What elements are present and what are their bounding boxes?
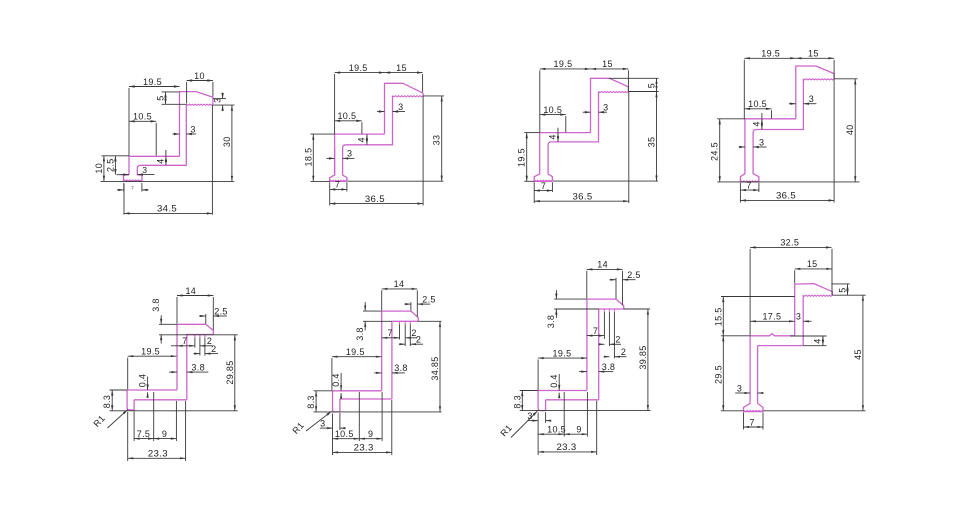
dim 19.5 (P1) <box>129 86 180 88</box>
ext line right full (P2) <box>422 96 424 206</box>
svg-text:3: 3 <box>320 418 325 428</box>
baseline ext bottom (P8) <box>764 410 866 412</box>
svg-text:15: 15 <box>807 259 818 269</box>
svg-text:32.5: 32.5 <box>780 238 799 248</box>
ext lines top dims (P3) <box>539 70 541 132</box>
profile P6 arm <box>333 390 382 392</box>
profile P5 hat teeth <box>194 335 196 338</box>
baseline ext right (P3) <box>553 180 658 182</box>
dim 32.5 (P8) <box>750 246 831 248</box>
ext line 32.5 left (P8) <box>749 249 751 336</box>
profile P1 foot serration <box>124 180 141 181</box>
dim 8.3 (P5) <box>111 390 113 411</box>
dim 3.8 top-left (P6) <box>364 302 366 311</box>
dim 3.8 mid (P5) <box>169 371 177 373</box>
svg-text:15: 15 <box>808 49 819 59</box>
profile P6 hat top <box>382 311 419 399</box>
ext lines dim 5 (P1) <box>162 91 180 93</box>
profile P2 foot serration <box>330 180 346 181</box>
ext lines 23.3 (P7) <box>537 413 539 456</box>
dim 0.4 (P6) <box>340 373 342 391</box>
baseline ext lip bottom (P6) <box>314 411 442 413</box>
leader R1 (P7) <box>511 411 538 438</box>
dim 15.5 (P8) <box>722 297 724 336</box>
ext lines 14 (P5) <box>176 297 178 324</box>
dim 2 second (P7) <box>604 356 609 358</box>
ext lines 10.5/9 (P6) <box>358 392 360 441</box>
profile P5 arm <box>127 389 177 391</box>
dim 19.5 (P7) <box>538 357 587 359</box>
dim 7 (P2) <box>330 188 347 190</box>
baseline ext right (P2) <box>348 180 444 182</box>
svg-text:36.5: 36.5 <box>776 191 796 202</box>
ext lines dim 10 (P1) <box>186 82 188 104</box>
dim 3.8 top-left (P5) <box>160 315 162 324</box>
ext lines 5 (P3) <box>609 77 659 79</box>
ext line hat-bottom right (P6) <box>418 320 441 322</box>
dim 8.3 (P6) <box>315 391 317 412</box>
dim 3 lip (P7) <box>528 420 538 422</box>
dim 19.5 (P4) <box>744 57 796 59</box>
ext lines 19.5 left (P3) <box>524 132 539 134</box>
profile P3 foot serration <box>535 180 552 181</box>
profile P3 flange serrated underside <box>599 92 629 93</box>
svg-text:9: 9 <box>576 425 581 435</box>
dim 29.85 (P5) <box>234 335 236 411</box>
svg-text:3.8: 3.8 <box>191 362 205 372</box>
ext line hat-top left (P5) <box>159 323 177 325</box>
svg-text:45: 45 <box>853 349 863 360</box>
dim 19.5 (P6) <box>332 356 382 358</box>
dim 4 (P4) <box>761 113 763 119</box>
dim 3 lip (P6) <box>320 427 333 429</box>
svg-text:3.8: 3.8 <box>151 298 161 312</box>
ext lines 3.8 (P7) <box>554 298 587 300</box>
ext lines 14 (P7) <box>586 271 588 299</box>
ext line 40 top (P4) <box>834 78 857 80</box>
dim 3 top-right (P1) <box>222 93 224 99</box>
dim 30 (P1) <box>231 105 233 181</box>
svg-text:33: 33 <box>432 135 442 146</box>
profile P4 top flange <box>796 66 834 119</box>
dim 7 teeth (P7) <box>587 335 605 337</box>
dim 19.5 (P2) <box>335 72 385 74</box>
dim 10 (P1) <box>187 80 213 82</box>
profile P6 hat teeth <box>399 321 401 324</box>
ext line right full (P3) <box>628 92 630 204</box>
svg-text:4: 4 <box>357 137 367 142</box>
svg-text:3: 3 <box>759 137 764 147</box>
dim 4 (P2) <box>366 134 368 145</box>
dim 19.5 top (P3) <box>540 68 591 70</box>
svg-text:7: 7 <box>131 186 134 191</box>
svg-text:36.5: 36.5 <box>572 192 592 203</box>
leader R1 (P6) <box>306 411 332 431</box>
svg-text:4: 4 <box>813 338 823 343</box>
dim 3 upper (P4) <box>789 103 796 105</box>
ext lines 7.5/9 (P5) <box>133 412 135 442</box>
svg-text:24.5: 24.5 <box>710 142 720 161</box>
svg-text:3: 3 <box>603 103 608 113</box>
profile P8 upper webs <box>794 284 796 336</box>
dim 4 (P1) <box>165 150 167 156</box>
ext line 8.3 top (P5) <box>110 389 128 391</box>
svg-text:19.5: 19.5 <box>517 148 527 167</box>
dim 7 teeth (P6) <box>382 337 400 339</box>
svg-text:10: 10 <box>194 71 205 81</box>
profile P3 lower web / arm top <box>540 133 591 146</box>
teeth ext lines (P5) <box>194 338 196 348</box>
svg-text:0.4: 0.4 <box>549 374 559 388</box>
profile P4 foot <box>740 133 759 182</box>
dim 10.5 (P1) <box>129 120 156 122</box>
profile P1 foot outline <box>124 175 142 182</box>
dim 34.5 (P1) <box>124 212 212 214</box>
dim 10.5 and 9 (P7) <box>538 433 564 435</box>
profile P1 right web and arm underside <box>137 104 186 181</box>
svg-text:5: 5 <box>647 83 657 88</box>
profile P3 right web / arm underside <box>548 92 598 182</box>
dim 14 (P5) <box>177 295 213 297</box>
svg-text:3: 3 <box>527 411 532 421</box>
svg-text:5: 5 <box>838 287 848 292</box>
profile P8 arm bottom <box>758 345 804 347</box>
svg-text:3: 3 <box>796 312 801 322</box>
ext lines 23.3 (P6) <box>332 414 334 456</box>
dim 33 (P2) <box>441 96 443 181</box>
dim 10 left (P1) <box>103 156 105 182</box>
dim 5 (P8) <box>847 284 849 295</box>
svg-text:7: 7 <box>182 336 187 346</box>
dim 3 lower (P8) <box>735 392 750 394</box>
dim 3.8 top-left (P7) <box>555 290 557 299</box>
svg-text:15: 15 <box>396 63 407 73</box>
svg-text:10.5: 10.5 <box>335 429 354 439</box>
svg-text:19.5: 19.5 <box>349 63 368 73</box>
ext lines 4 (P8) <box>790 335 827 337</box>
dim 5 right (P3) <box>656 78 658 91</box>
dim 7 teeth (P5) <box>177 345 195 347</box>
profile P1 top flange <box>180 92 213 157</box>
dim 2.5 (P6) <box>404 303 411 305</box>
svg-text:2.5: 2.5 <box>627 270 641 280</box>
svg-text:23.3: 23.3 <box>148 449 168 460</box>
svg-text:23.3: 23.3 <box>354 443 374 454</box>
svg-text:3: 3 <box>347 149 352 159</box>
baseline ext (P4) <box>717 181 859 183</box>
svg-text:19.5: 19.5 <box>761 49 780 59</box>
ext lines 29.5 (P8) <box>721 335 750 337</box>
svg-text:3.8: 3.8 <box>602 362 616 372</box>
svg-text:2: 2 <box>615 335 620 345</box>
dim 3 upper (P8) <box>803 320 811 322</box>
ext lines dim 3 top-right (P1) <box>213 98 226 100</box>
svg-text:14: 14 <box>597 260 608 270</box>
dim 2 first (P5) <box>200 345 213 347</box>
svg-text:8.3: 8.3 <box>512 395 522 409</box>
svg-text:29.5: 29.5 <box>713 365 723 384</box>
ext line hat-bottom level (P5) <box>159 334 238 336</box>
profile P8 arm top with bump <box>750 334 795 336</box>
dim 18.5 (P2) <box>312 134 314 181</box>
profile P4 foot serration <box>741 181 758 182</box>
svg-text:10.5: 10.5 <box>547 425 566 435</box>
dim 3 lower (P2) <box>327 157 335 159</box>
ext lines 10.5/9 (P7) <box>563 392 565 437</box>
profile P1 flange serrated underside <box>186 104 213 105</box>
svg-text:18.5: 18.5 <box>303 148 313 167</box>
svg-text:10.5: 10.5 <box>748 99 767 109</box>
dim 15 (P4) <box>796 57 834 59</box>
svg-text:7: 7 <box>541 181 546 191</box>
dim 2 second (P5) <box>194 353 200 355</box>
svg-text:3.8: 3.8 <box>546 315 556 329</box>
dim 19.5 (P5) <box>128 355 177 357</box>
svg-text:19.5: 19.5 <box>141 347 160 357</box>
profile P2 arm top left join <box>334 148 336 175</box>
svg-text:34.85: 34.85 <box>430 356 440 380</box>
dim 7.5 and 9 (P5) <box>134 438 154 440</box>
dim 15 (P2) <box>385 72 423 74</box>
dim 23.3 (P6) <box>333 451 392 453</box>
svg-text:14: 14 <box>185 286 196 296</box>
dim 0.4 (P7) <box>558 374 560 391</box>
dim 3 mid (P3) <box>583 111 591 113</box>
profile P2 foot <box>330 148 347 181</box>
dim 2 second (P6) <box>399 343 405 345</box>
ext line left 19.5 (P1) <box>128 88 130 156</box>
dim 45 (P8) <box>862 295 864 411</box>
profile P2 lower web / arm top <box>335 134 385 148</box>
dim 10.5 and 9 (P6) <box>333 438 360 440</box>
ext lines 3.8 (P6) <box>363 310 382 312</box>
dim 15 (P8) <box>795 268 832 270</box>
dim 29.5 (P8) <box>722 336 724 411</box>
ext lines 23.3 (P5) <box>127 412 129 461</box>
svg-text:3: 3 <box>190 124 195 134</box>
profile P7 arm <box>538 390 587 392</box>
svg-text:10.5: 10.5 <box>543 105 562 115</box>
svg-text:3: 3 <box>142 165 147 175</box>
ext line hat-bottom right (P7) <box>624 308 650 310</box>
ext line 10.5 right (P1) <box>155 123 157 156</box>
svg-text:7: 7 <box>335 180 340 190</box>
dim 3 at foot (P1) <box>121 174 130 176</box>
dim 19.5 left (P3) <box>526 133 528 182</box>
ext line 19.5 left (P6) <box>331 358 333 390</box>
svg-text:8.3: 8.3 <box>306 395 316 409</box>
ext lines 5 (P8) <box>831 283 850 285</box>
dim 35 (P3) <box>656 92 658 181</box>
dim 7 tiny under foot (P1) <box>117 189 124 191</box>
svg-text:3: 3 <box>809 94 814 104</box>
ext line 33 top (P2) <box>423 95 444 97</box>
ext lines 7 (P4) <box>739 183 741 203</box>
svg-text:35: 35 <box>647 137 657 148</box>
dim 2.5 (P5) <box>199 315 206 317</box>
dim 17.5 (P8) <box>750 320 795 322</box>
ext lines 7 (P3) <box>533 182 535 203</box>
svg-text:2.5: 2.5 <box>422 294 436 304</box>
ext lines 15 (P8) <box>794 270 796 283</box>
dim 14 (P7) <box>587 268 623 270</box>
dim 15 (P3) <box>591 68 629 70</box>
profile P5 lip <box>127 390 134 410</box>
svg-text:2.5: 2.5 <box>214 306 228 316</box>
ext line 8.3 top (P6) <box>314 390 333 392</box>
profile P5 hat top <box>177 324 213 400</box>
profile P8 flange serrated underside <box>803 295 832 296</box>
svg-text:19.5: 19.5 <box>346 347 365 357</box>
svg-text:30: 30 <box>222 136 232 147</box>
ext line hatch-level left (P8) <box>721 296 795 298</box>
dim 40 (P4) <box>854 79 856 182</box>
dim 14 (P6) <box>382 288 418 290</box>
svg-text:3: 3 <box>737 383 742 393</box>
ext line lip right (P6) <box>339 413 341 430</box>
dim 3 mid (P1) <box>173 133 180 135</box>
svg-text:2: 2 <box>621 347 626 357</box>
svg-text:10.5: 10.5 <box>337 111 356 121</box>
profile P4 flange serrated underside <box>803 79 834 80</box>
dim 23.3 (P5) <box>128 457 186 459</box>
dim 0.4 (P5) <box>147 377 149 391</box>
teeth ext lines (P6) <box>399 324 401 339</box>
profile P2 right web / arm underside <box>343 96 393 182</box>
ext line 19.5 left (P7) <box>537 360 539 390</box>
profile P7 hat top <box>587 299 624 400</box>
svg-text:9: 9 <box>368 429 373 439</box>
ext lines 7 (P2) <box>329 182 331 205</box>
dim 23.3 (P7) <box>538 451 597 453</box>
profile P3 top flange <box>591 78 629 132</box>
dim 39.85 (P7) <box>647 309 649 411</box>
leader R1 (P5) <box>108 410 128 429</box>
svg-text:19.5: 19.5 <box>553 348 572 358</box>
dim 7 (P8) <box>744 426 764 428</box>
svg-text:4: 4 <box>548 134 558 139</box>
svg-text:3: 3 <box>398 102 403 112</box>
ext line 10.5 (P2) <box>361 122 363 134</box>
dim 34.85 (P6) <box>439 321 441 412</box>
svg-text:2: 2 <box>416 335 421 345</box>
ext line 24.5 top (P4) <box>717 118 745 120</box>
dim 10.5 (P2) <box>335 120 362 122</box>
ext line 10.5 (P3) <box>565 116 567 132</box>
dim 24.5 (P4) <box>719 119 721 182</box>
svg-text:3.8: 3.8 <box>394 363 408 373</box>
svg-text:19.5: 19.5 <box>554 59 573 69</box>
svg-text:4: 4 <box>155 159 165 164</box>
profile P2 flange serrated underside <box>393 96 424 97</box>
dim 4 (P8) <box>822 336 824 346</box>
svg-text:0.4: 0.4 <box>137 374 147 388</box>
ext lines tiny dim (P1) <box>123 183 125 192</box>
ext line 10.5 (P4) <box>771 110 773 118</box>
svg-text:10.5: 10.5 <box>133 112 152 122</box>
dim 8.3 (P7) <box>521 391 523 411</box>
profile P8 foot serration <box>744 410 762 411</box>
dim 4 (P3) <box>557 128 559 133</box>
dim 7 (P4) <box>740 189 759 191</box>
svg-text:14: 14 <box>394 279 405 289</box>
dim 10.5 (P4) <box>745 108 772 110</box>
profile P3 foot <box>534 145 552 181</box>
svg-text:19.5: 19.5 <box>143 77 162 87</box>
svg-text:5: 5 <box>156 95 166 100</box>
ext line right full (P4) <box>833 79 835 203</box>
profile P6 lip <box>333 391 340 412</box>
svg-text:7: 7 <box>593 326 598 336</box>
long baseline ext (P1) <box>101 180 235 182</box>
profile P4 lower web / arm top <box>745 119 796 133</box>
baseline ext lip bottom (P5) <box>110 410 238 412</box>
profile P7 lip <box>538 391 546 411</box>
ext line lip right (P7) <box>545 412 547 423</box>
svg-text:7: 7 <box>388 328 393 338</box>
dim 3 mid (P2) <box>377 111 385 113</box>
dim 2.5 (P1) <box>114 156 116 175</box>
dim 5 (P1) <box>165 92 167 104</box>
dim 7 (P3) <box>534 190 552 192</box>
dim 10.5 (P3) <box>540 114 566 116</box>
dim 2 first (P6) <box>405 337 417 339</box>
svg-text:34.5: 34.5 <box>157 204 177 215</box>
ext lines 14 (P6) <box>381 290 383 310</box>
ext lines top dims (P2) <box>334 74 336 134</box>
svg-text:0.4: 0.4 <box>331 373 341 387</box>
svg-text:40: 40 <box>845 124 855 135</box>
dim 2 first (P7) <box>609 343 621 345</box>
svg-text:2: 2 <box>211 344 216 354</box>
svg-text:7: 7 <box>750 417 755 427</box>
svg-text:4: 4 <box>752 121 762 126</box>
svg-text:3.8: 3.8 <box>355 327 365 341</box>
dim 3.8 mid (P7) <box>579 371 587 373</box>
svg-text:17.5: 17.5 <box>762 312 781 322</box>
profile P4 right web / arm underside <box>753 79 803 182</box>
dim 36.5 (P3) <box>534 200 629 202</box>
profile P8 flange <box>795 284 833 296</box>
dim 2.5 (P7) <box>610 279 617 281</box>
profile P8 lower web and foot <box>744 336 764 412</box>
dim 36.5 (P2) <box>330 203 423 205</box>
svg-text:8.3: 8.3 <box>102 395 112 409</box>
svg-text:2.5: 2.5 <box>105 158 115 172</box>
ext lines 2.5 (P1) <box>102 155 130 157</box>
svg-text:29.85: 29.85 <box>225 360 235 384</box>
teeth ext lines (P7) <box>603 312 605 339</box>
profile P7 hat teeth <box>603 309 605 312</box>
ext line chamfer start (P7) <box>615 278 617 299</box>
ext line 19.5 left (P5) <box>127 358 129 390</box>
svg-text:23.3: 23.3 <box>556 442 576 453</box>
svg-text:15: 15 <box>602 59 613 69</box>
ext lines 18.5 (P2) <box>311 133 335 135</box>
ext line 8.3 top (P7) <box>520 390 538 392</box>
svg-text:9: 9 <box>162 429 167 439</box>
ext lines top dims (P4) <box>743 60 745 119</box>
profile P1 lower web and arm top <box>129 156 180 175</box>
baseline ext lip bottom (P7) <box>520 410 651 412</box>
ext lines 7 (P8) <box>743 413 745 430</box>
svg-text:36.5: 36.5 <box>365 194 385 205</box>
ext lines 34.5 (P1) <box>123 184 125 215</box>
svg-text:10: 10 <box>94 163 104 174</box>
dim 3 lower (P4) <box>739 146 745 148</box>
svg-text:7.5: 7.5 <box>137 429 151 439</box>
dim 36.5 (P4) <box>740 199 834 201</box>
